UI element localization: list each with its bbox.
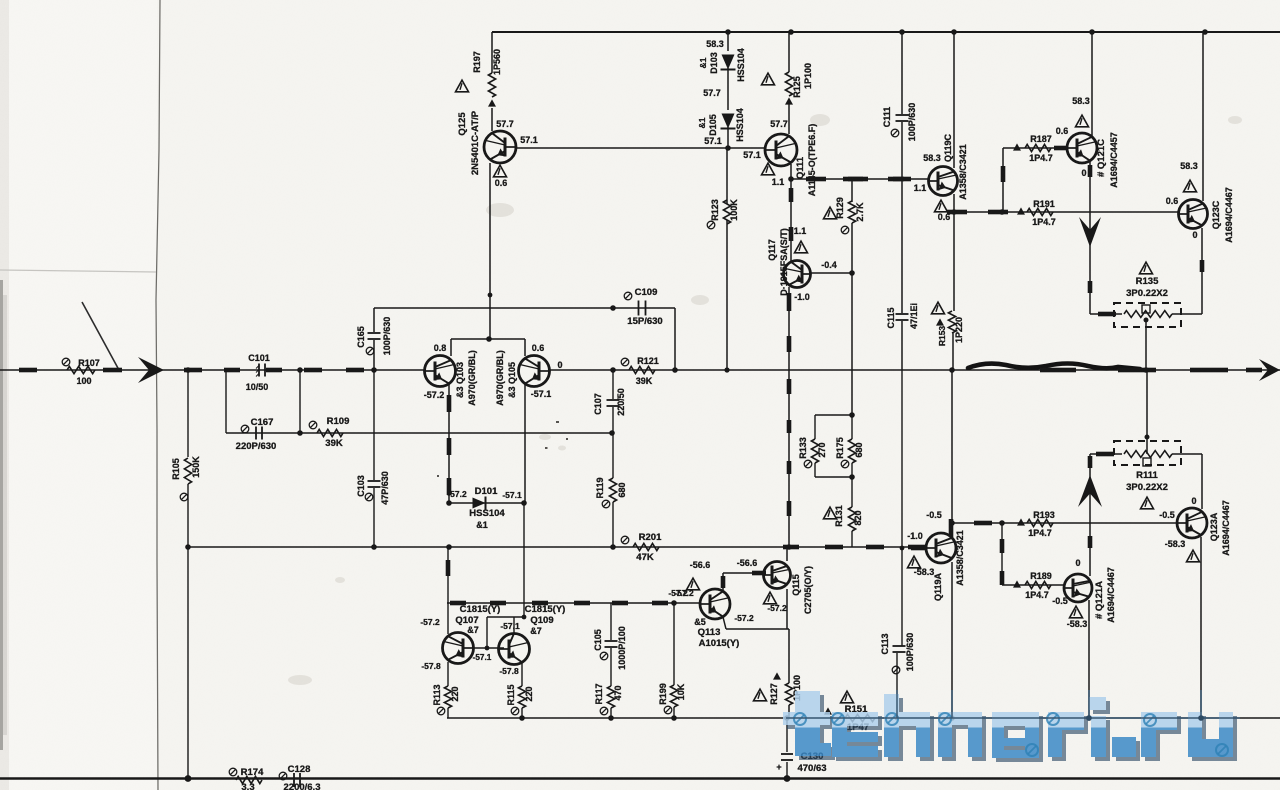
resistor R117 470: [607, 686, 614, 708]
resistor R151 1P47: [824, 707, 832, 714]
capacitor C111 100P/630: [901, 32, 903, 114]
output arrow right edge: [1259, 359, 1280, 381]
wire: Q111 emitter junction down + emitter line y=179: [790, 164, 792, 262]
wire: Q115 collector to R201 line: [786, 547, 788, 561]
resistor R123 100K: [726, 148, 728, 204]
wire: Q103/Q105 collector bracket: [451, 338, 525, 340]
paper tone left of fold: [0, 0, 157, 790]
transistor Q105 A970(GR/BL): [519, 356, 550, 387]
wire: rail to Q123C collector: [1202, 32, 1204, 201]
wire: C167/R109 line y=433: [225, 370, 227, 433]
transistor Q113 A1015(Y): [700, 589, 730, 619]
junction R109 line / C107 column: [609, 430, 615, 436]
wire: base line y=603 into Q113: [447, 602, 700, 604]
wire: bottom join line y=718: [447, 717, 1280, 719]
resistor R187 1P4.7 to Q121C base: [1003, 147, 1067, 149]
transistor Q123C A1694/C4467: [1179, 200, 1208, 229]
input arrow: [138, 357, 164, 383]
resistor R133 270 / R175 680 parallel pair: [815, 414, 852, 416]
transistor Q121C A1694/C4457: [1067, 133, 1097, 163]
signal path dashes on main line left: [19, 368, 37, 373]
resistor R115 220: [521, 663, 523, 686]
capacitor C113 100P/630: [896, 653, 898, 718]
wire: Q119A emitter down to y718: [951, 562, 953, 718]
wire: R191 line from Q119C emitter to Q123C base: [954, 211, 1179, 213]
transistor Q117 D-1915FSA(S/T): [784, 261, 811, 288]
wire: Q125 emitter down to Q103/Q105 collector bracket: [489, 163, 491, 339]
wire: Q121C emitter down with big arrow to R135: [1089, 160, 1091, 314]
wire: Q119C emitter down / R153 / to main line: [953, 194, 955, 311]
resistor R199 10K: [673, 603, 675, 685]
wire: Q121A emitter down to y718: [1088, 600, 1090, 718]
resistor R127 1P100: [788, 629, 790, 683]
transistor Q109 C1815(Y): [499, 634, 530, 665]
capacitor C103 47P/630: [373, 370, 375, 480]
wire: Q105 emitter down to D101 cathode: [524, 383, 526, 503]
wire: corner down to R189 line: [1001, 523, 1003, 585]
wire: R135 center tap to main line: [1145, 319, 1147, 370]
transistor Q103 A970(GR/BL): [425, 356, 456, 387]
wire: main signal line y=370: [0, 369, 425, 371]
wire: C109 right down to main line: [674, 308, 676, 370]
wire: R193 line y=523: [952, 522, 1177, 524]
wire: Q119A collector/emitter column: [951, 371, 953, 534]
transistor Q107 C1815(Y): [443, 633, 474, 664]
wires ghosting through watermark: [786, 690, 1240, 718]
signal dashes on main line right: [1040, 368, 1076, 373]
wire: top supply rail: [492, 31, 1280, 33]
wire: C165/C109 top loop: [374, 307, 675, 309]
wire: from D101/Q105 column down to bracket: [523, 503, 525, 617]
paper mottling: [288, 114, 1242, 685]
wire: from R201 line down to base line: [447, 547, 449, 603]
resistor R121 39K in series main line: [629, 366, 655, 373]
wire: R111 center tap up to main line: [1146, 370, 1148, 454]
capacitor C107 220/50: [612, 370, 614, 399]
transistor Q125 2N5401C-AT/P: [484, 131, 516, 163]
wire: Q123C emitter down to R135 right: [1201, 228, 1203, 314]
resistor R119 680: [609, 478, 616, 502]
wire: base line Q125 to Q111 (57.1 line): [516, 147, 765, 149]
wire: corner from R187 line down to R191 line: [1002, 148, 1004, 212]
wire: Q107 base - Q109 bracket: [472, 647, 504, 649]
wire: R113 bottom corner: [519, 715, 525, 721]
wire: Q123A emitter down to y718: [1200, 537, 1202, 718]
resistor R174 3.3: [236, 776, 262, 783]
resistor R191 1P4.7: [1017, 207, 1025, 214]
resistor R105 150K from main line to R201 line: [187, 370, 189, 457]
wire: vertical from rail to Q125: [491, 32, 493, 73]
resistor R109 39K: [317, 429, 343, 436]
transistor Q123A A1694/C4467: [1177, 508, 1207, 538]
capacitor C115 47/16i: [901, 179, 903, 313]
resistor R129 2.7K: [851, 179, 853, 202]
transistor Q119C A1358/C3421: [929, 167, 958, 196]
resistor R197 1P560: [488, 73, 495, 97]
resistor R107 100: [67, 366, 95, 373]
wire: Q117 base to R129: [810, 272, 852, 274]
resistor R131 820: [848, 507, 855, 531]
resistor R193 1P4.7: [1017, 518, 1025, 525]
wire: R111 right to Q123A collector: [1201, 454, 1203, 509]
resistor R113 220: [447, 662, 449, 686]
resistor R189 1P4.7 to Q121A base: [1002, 584, 1064, 586]
wire: R201 line y=547: [188, 546, 926, 548]
watermark slash circles: [794, 713, 806, 725]
capacitor C128 2200/6.3: [293, 773, 295, 787]
scan artifact: faint horizontal crease: [0, 270, 156, 272]
diode D105 HSS104: [722, 114, 735, 129]
wire: Q115 emitter down: [786, 589, 788, 629]
transistor Q119A A1358/C3421: [926, 533, 956, 563]
diode D103 HSS104: [727, 32, 729, 51]
capacitor C109 15P/630: [638, 301, 640, 316]
wire: Q103 emitter down to D101: [448, 383, 450, 503]
wire: bottom supply rail: [0, 777, 1280, 780]
hand-drawn black squiggle over main line: [968, 364, 1140, 370]
wire: Q117 emitter down through main line to Q115: [788, 287, 790, 546]
warning triangle + 0.6 under Q125: [494, 165, 507, 177]
paper grain: [0, 0, 1, 1]
capacitor C105 1000P/100: [610, 603, 612, 640]
junction dots on main line: [185, 367, 191, 373]
resistor R135 3P0.22X2 in dashed box: [1090, 313, 1122, 315]
wire: R129 junction down to R133/R175: [851, 273, 853, 415]
transistor Q121A A1694/C4467: [1064, 574, 1092, 602]
wire: Q113 collector up to Q115 base: [722, 573, 724, 592]
capacitor C101 10/50: [258, 364, 260, 377]
resistor R201 47K: [633, 543, 659, 550]
capacitor C130 470/63 to bottom rail: [786, 718, 788, 752]
capacitor C167 220P/630: [255, 427, 257, 440]
transistor Q111 A1145-O(TPE6.F): [765, 134, 797, 166]
scan artifact: vertical fold line: [156, 0, 160, 790]
wire: rail to Q119C collector: [953, 32, 955, 168]
scan artifact: left paper edge shading: [0, 0, 9, 790]
diode D101 HSS104: [446, 500, 452, 506]
resistor R111 3P0.22X2 in dashed box: [1090, 453, 1122, 455]
wire: branch from main line to R109 junction: [299, 370, 301, 433]
wire: Q113 emitter to R127 line: [723, 617, 726, 629]
capacitor C165 100P/630 above main line: [373, 308, 375, 332]
transistor Q115 C2705(O/Y): [764, 562, 791, 589]
wire: Q107 collector up to base line: [447, 603, 449, 634]
watermark tehnari.ru: [783, 691, 1237, 762]
wire: rail to Q121C collector: [1091, 32, 1093, 137]
scan artifact: diagonal pen stroke: [82, 302, 119, 370]
resistor R153 1P220 with triangles: [948, 311, 955, 333]
wire: Q121A collector up through big arrow to R111: [1089, 454, 1091, 576]
resistor R125 1P100 from rail to Q111 collector: [788, 32, 790, 72]
